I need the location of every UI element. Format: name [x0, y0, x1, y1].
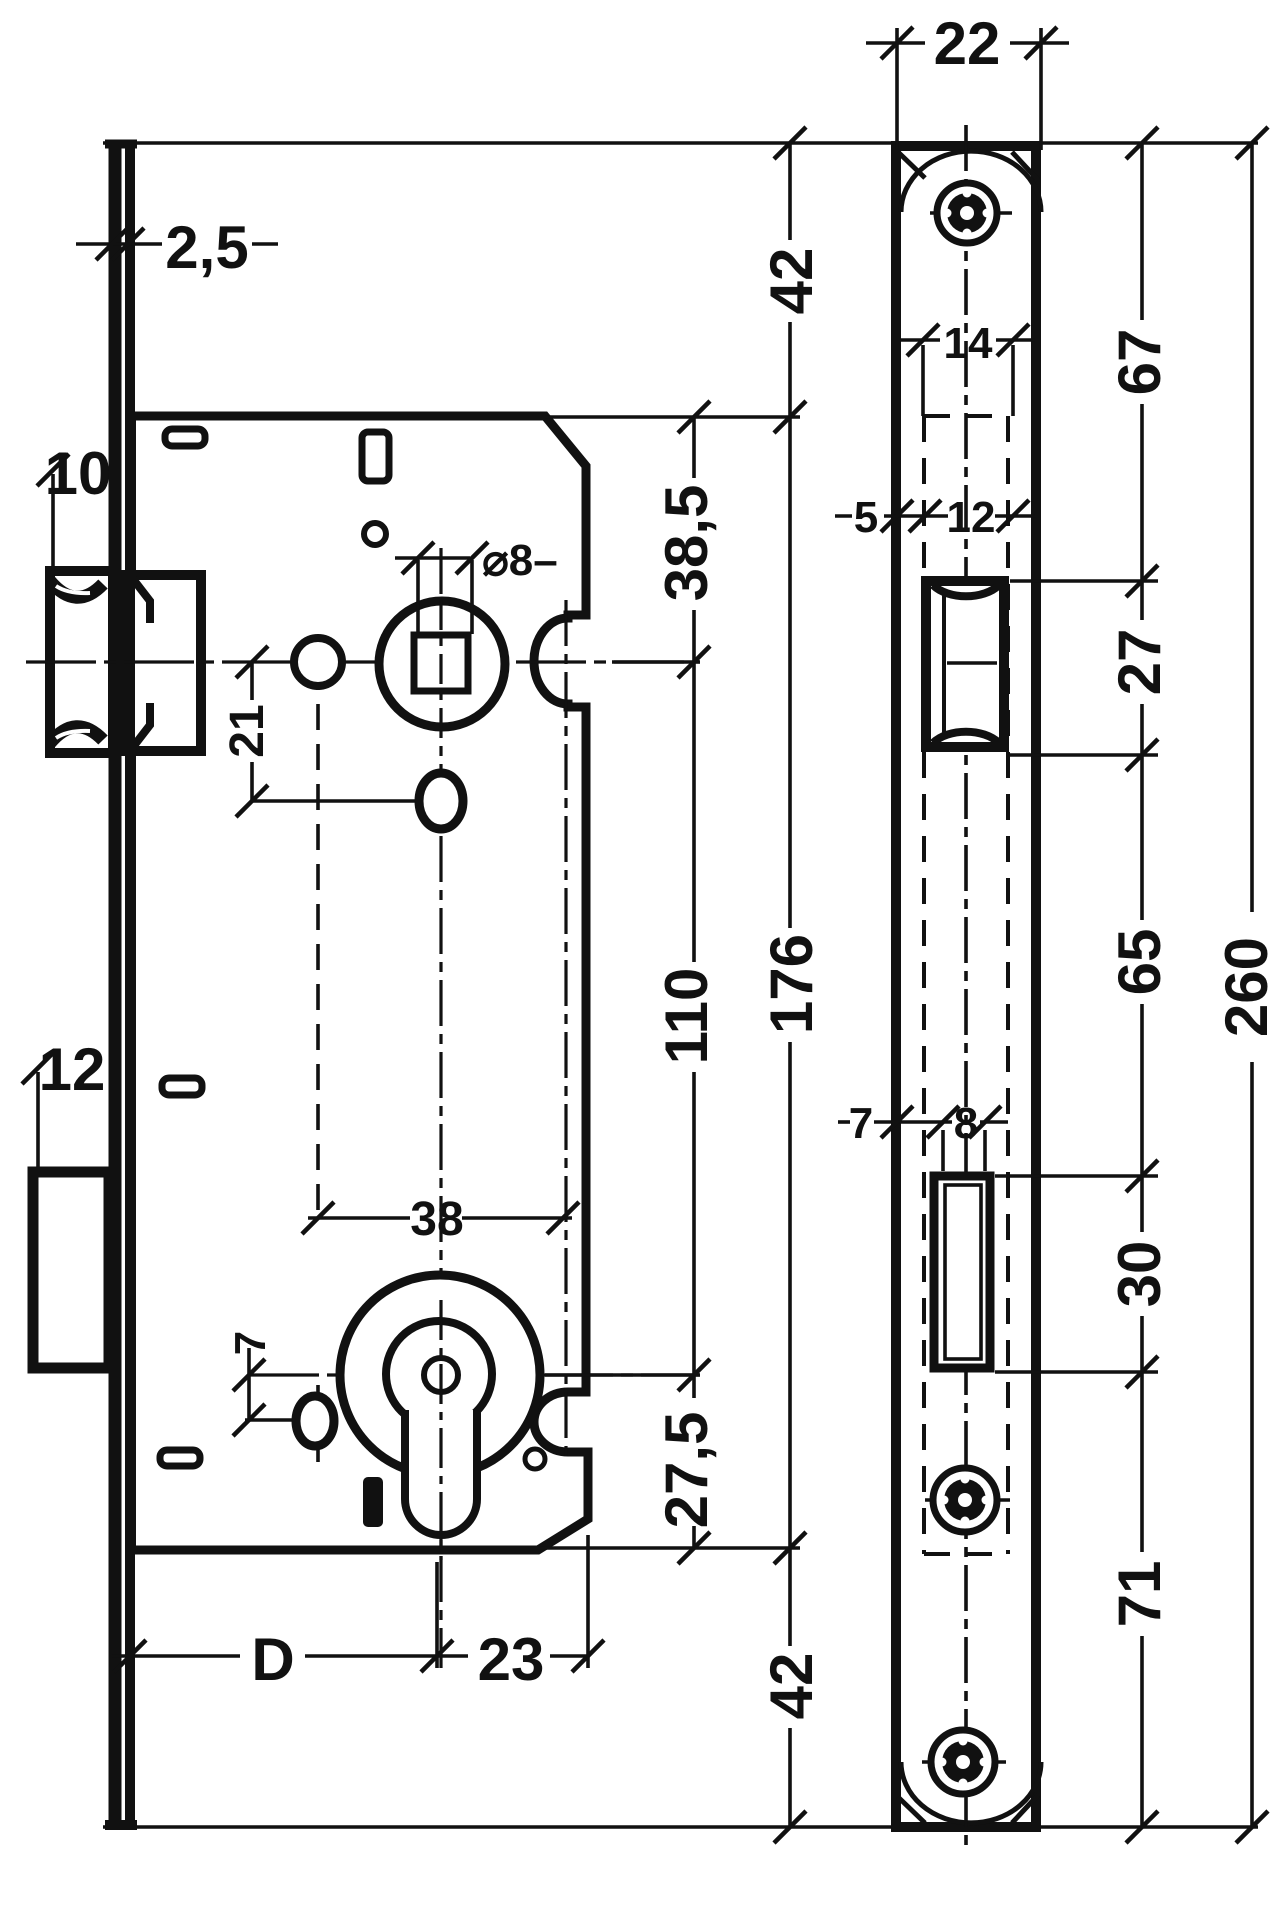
- cylinder outer circle: [340, 1275, 540, 1475]
- svg-text:14: 14: [944, 319, 993, 368]
- faceplate rounded end arc top: [901, 151, 1041, 212]
- svg-text:23: 23: [478, 1626, 545, 1693]
- extension line case top right: [545, 415, 800, 419]
- faceplate edge top cap: [105, 140, 137, 149]
- filled slot near keyway: [363, 1477, 383, 1527]
- dimension 38: [308, 1216, 410, 1220]
- follower hub circle: [379, 601, 505, 727]
- latch tail step bottom: [133, 703, 150, 747]
- latch tail step top: [133, 579, 150, 623]
- svg-text:10: 10: [45, 440, 112, 507]
- cylinder centerline vertical redraw: [439, 1300, 442, 1560]
- svg-text:71: 71: [1106, 1561, 1173, 1628]
- centerline horizontal through oval1: [253, 799, 466, 803]
- lock case left edge: [130, 416, 136, 1550]
- faceplate rounded end arc bottom: [901, 1762, 1041, 1823]
- dimension 21: [250, 662, 254, 700]
- latch bolt head: [50, 571, 113, 753]
- screw hole top: [930, 183, 1012, 243]
- dimension dia 8: [416, 560, 420, 634]
- svg-text:8: 8: [954, 1099, 978, 1148]
- svg-text:5: 5: [854, 493, 878, 542]
- centerline horizontal through oval2: [245, 1418, 295, 1422]
- dimension 10: [51, 474, 55, 571]
- dimension 12 left: [36, 1072, 40, 1168]
- svg-text:27: 27: [1106, 629, 1173, 696]
- extension line follower center right: [612, 660, 700, 664]
- svg-text:27,5: 27,5: [653, 1412, 720, 1529]
- dimension 7 and 8: [838, 1120, 850, 1124]
- lock case outline: [134, 416, 588, 1550]
- svg-text:42: 42: [758, 248, 825, 315]
- svg-text:22: 22: [934, 10, 1001, 77]
- latch bevel arc top: [50, 581, 103, 597]
- dimension 14: [921, 345, 925, 416]
- slot cutout vertical top middle: [362, 432, 389, 481]
- svg-text:38,5: 38,5: [653, 485, 720, 602]
- svg-text:21: 21: [221, 704, 274, 757]
- screw post circle: [294, 638, 342, 686]
- extension latch bottom right: [1010, 753, 1158, 757]
- svg-text:2,5: 2,5: [165, 214, 248, 281]
- faceplate center dash-dot line: [964, 125, 968, 1848]
- svg-text:42: 42: [758, 1653, 825, 1720]
- extension deadbolt bottom right: [995, 1370, 1158, 1374]
- extension latch top right: [1010, 579, 1158, 583]
- extension line case bottom right: [536, 1546, 800, 1550]
- follower square centerline: [439, 600, 442, 728]
- wire top extension line y=143: [103, 141, 1258, 145]
- latch tail block: [120, 575, 201, 751]
- faceplate corner diagonal top right: [1012, 152, 1038, 180]
- extension line cylinder center right: [545, 1373, 700, 1377]
- wire bottom extension line y=1827: [103, 1825, 1258, 1829]
- dashed vertical through screw post: [316, 664, 320, 1218]
- faceplate edge view right line: [125, 142, 135, 1830]
- svg-text:67: 67: [1106, 329, 1173, 396]
- dimension chain 67 27 65 30 71: [1140, 143, 1144, 320]
- svg-text:⌀8–: ⌀8–: [482, 536, 557, 585]
- cylinder center hole: [424, 1358, 458, 1392]
- centerline vertical through oval2: [316, 1385, 320, 1462]
- screw hole bottom: [922, 1730, 1006, 1794]
- faceplate edge view left line: [109, 142, 122, 1830]
- latch opening in faceplate: [926, 581, 1004, 747]
- svg-text:12: 12: [947, 493, 996, 542]
- slot cutout upper left: [165, 429, 205, 446]
- dimension 22: [895, 28, 899, 150]
- extension line cylinder center to D dim: [435, 1562, 439, 1668]
- svg-text:D: D: [251, 1626, 294, 1693]
- svg-text:7: 7: [226, 1331, 275, 1355]
- slot cutout lower left: [160, 1450, 200, 1466]
- dimension line 42 176 42: [788, 143, 792, 240]
- small circle right of keyway: [525, 1449, 545, 1469]
- cylinder inner circle: [386, 1321, 492, 1427]
- dimension 260: [1250, 143, 1254, 912]
- dimension 7 left: [247, 1348, 251, 1420]
- svg-text:260: 260: [1213, 937, 1280, 1037]
- extension line case corner to 23 dim: [586, 1535, 590, 1668]
- cylinder keyway: [405, 1410, 477, 1535]
- faceplate edge bottom cap: [105, 1820, 137, 1830]
- svg-text:12: 12: [39, 1036, 106, 1103]
- svg-text:176: 176: [758, 934, 825, 1034]
- centerline vertical through follower/cylinder: [439, 548, 442, 1668]
- svg-text:38: 38: [410, 1193, 463, 1246]
- dimension 2,5: [76, 242, 162, 246]
- centerline vertical right notches: [564, 600, 567, 1460]
- deadbolt head: [33, 1172, 109, 1368]
- oval hole left of cylinder: [296, 1396, 334, 1446]
- svg-text:30: 30: [1106, 1241, 1173, 1308]
- faceplate corner diagonal bottom right: [1012, 1795, 1038, 1823]
- extension deadbolt top right: [995, 1174, 1158, 1178]
- svg-text:110: 110: [653, 968, 720, 1065]
- screw hole middle: [925, 1468, 1010, 1532]
- svg-text:65: 65: [1106, 929, 1173, 996]
- centerline horizontal through cylinder: [249, 1373, 700, 1376]
- centerline horizontal through follower: [26, 660, 700, 663]
- faceplate corner diagonal top left: [898, 152, 925, 178]
- deadbolt opening in faceplate: [934, 1176, 990, 1368]
- faceplate front view outline: [896, 146, 1036, 1827]
- svg-text:7: 7: [849, 1099, 873, 1148]
- small circle top: [364, 523, 386, 545]
- follower square 8mm: [414, 635, 468, 691]
- faceplate corner diagonal bottom left: [898, 1797, 925, 1823]
- dashed recess rectangle: [922, 416, 926, 1554]
- slot cutout middle left: [162, 1078, 202, 1095]
- oval hole below follower: [419, 773, 463, 829]
- dimension 5 and 12: [835, 514, 852, 518]
- dimension D and 23: [112, 1654, 240, 1658]
- latch bevel arc bottom: [50, 727, 103, 743]
- dimension line 38,5 110 27,5: [692, 417, 696, 478]
